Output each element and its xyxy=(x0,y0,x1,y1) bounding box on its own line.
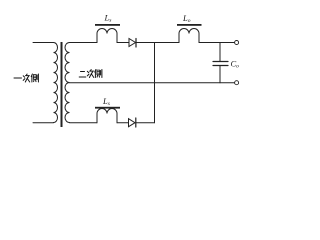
wire reactor S2 to diode D2 xyxy=(117,122,129,124)
saturable reactor Ls (bottom) winding xyxy=(97,109,117,123)
wire secondary top lead to reactor S1 xyxy=(70,42,98,44)
output choke Lo core bar xyxy=(177,24,202,26)
wire secondary bottom lead to reactor S2 xyxy=(70,122,98,124)
diode D1 xyxy=(129,39,136,47)
二 xyxy=(79,72,86,78)
wire diode D1 to choke Lo xyxy=(136,42,179,44)
wire diode D2 to node xyxy=(136,122,155,124)
transformer T1 core xyxy=(61,42,63,127)
capacitor Co bottom plate xyxy=(213,65,228,67)
diode D2 cathode bar xyxy=(135,118,137,127)
capacitor Co top lead xyxy=(219,43,221,62)
側 xyxy=(95,70,102,78)
negative output terminal xyxy=(235,81,239,85)
transformer T1 primary winding xyxy=(54,43,58,123)
svg-text:Lo: Lo xyxy=(182,13,191,24)
svg-text:Ls: Ls xyxy=(102,96,110,107)
saturable reactor Ls (top) winding xyxy=(97,29,117,43)
node vertical wire joining D1/D2 cathodes xyxy=(154,43,156,123)
wire center tap rail xyxy=(70,82,235,84)
次 xyxy=(23,74,30,82)
label 一次側 (primary side) xyxy=(14,74,38,82)
transformer T1 secondary winding (center-tapped) xyxy=(65,43,70,123)
wire reactor S1 to diode D1 xyxy=(117,42,129,44)
wire primary bottom lead xyxy=(33,122,54,124)
saturable reactor Ls (top) core bar xyxy=(95,24,120,26)
wire choke Lo to positive output terminal xyxy=(199,42,235,44)
一 xyxy=(14,77,22,79)
wire primary top lead xyxy=(33,42,54,44)
capacitor Co bottom lead xyxy=(219,66,221,83)
diode D1 cathode bar xyxy=(135,39,137,48)
側 xyxy=(31,74,38,82)
saturable reactor Ls (bottom) core bar xyxy=(95,107,120,109)
svg-text:Co: Co xyxy=(231,59,240,70)
output choke Lo winding xyxy=(179,29,199,43)
label 二次側 (secondary side) xyxy=(79,70,102,78)
capacitor Co top plate xyxy=(213,61,228,63)
svg-text:Ls: Ls xyxy=(104,13,112,24)
次 xyxy=(87,70,94,78)
positive output terminal xyxy=(235,41,239,45)
diode D2 xyxy=(129,119,136,127)
